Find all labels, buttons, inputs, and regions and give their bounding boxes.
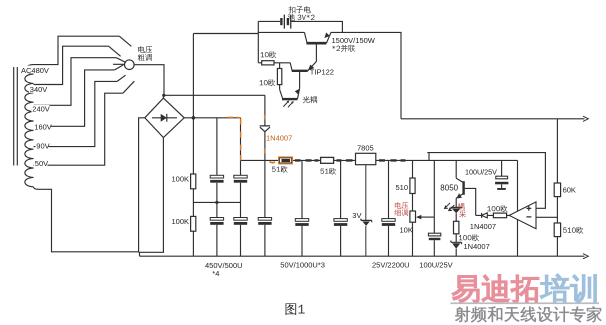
label 51ohm #2 bbox=[320, 168, 336, 175]
watermark logo bbox=[452, 274, 596, 303]
svg-text:1500V/150W: 1500V/150W bbox=[332, 36, 376, 45]
label 10ohm #1 bbox=[261, 51, 277, 58]
100K resistor column bbox=[192, 34, 194, 257]
svg-text:240V: 240V bbox=[32, 104, 50, 113]
tap wire AC480V bbox=[34, 36, 120, 64]
diode 1N4007 column bbox=[264, 95, 266, 256]
switch blade 240V bbox=[116, 58, 126, 63]
resistor R 100ohm (LED chain) bbox=[454, 221, 459, 234]
7805 ground leg with 3V zener bbox=[365, 165, 367, 257]
label 510ohm bbox=[563, 227, 583, 234]
60K / 510ohm divider column bbox=[556, 119, 558, 256]
orange dashes on cap column bbox=[240, 119, 242, 161]
capacitor column C 450V/500U #1 bbox=[216, 118, 218, 256]
svg-text:*4: *4 bbox=[212, 269, 219, 278]
label 100ohm op-amp bbox=[487, 205, 507, 212]
resistor R 10ohm horizontal bbox=[258, 34, 290, 63]
winding bottom tail wire bbox=[34, 187, 139, 252]
wire bridge bottom vertex down bbox=[139, 138, 164, 253]
pot wiper arrow bbox=[420, 216, 434, 218]
svg-text:100K: 100K bbox=[172, 175, 190, 184]
svg-text:1N4007: 1N4007 bbox=[266, 134, 292, 143]
8050 base wire bbox=[465, 188, 476, 215]
svg-text:160V: 160V bbox=[34, 123, 52, 132]
label button battery line1 bbox=[288, 6, 310, 13]
label 10ohm #2 bbox=[260, 79, 276, 86]
svg-text:1N4007: 1N4007 bbox=[470, 222, 496, 231]
label *2 parallel bbox=[332, 45, 355, 52]
svg-text:8050: 8050 bbox=[440, 183, 458, 192]
bottom rail bbox=[140, 252, 585, 256]
switch blade 160V bbox=[113, 64, 124, 70]
main +rail bbox=[241, 159, 518, 161]
op-amp - input wire bbox=[536, 216, 557, 218]
op-amp supply vertical bbox=[517, 160, 519, 256]
svg-text:50V/1000U*3: 50V/1000U*3 bbox=[280, 261, 325, 270]
label optocoupler bbox=[303, 96, 317, 103]
tap wire 50V bbox=[34, 93, 123, 165]
label fine adjust line2 (red) bbox=[394, 209, 408, 216]
watermark slogan bbox=[455, 306, 601, 322]
label white backgrounds bbox=[20, 66, 51, 168]
switch blade 50V bbox=[123, 81, 134, 93]
zener D 1N4007 (LED chain) bbox=[451, 241, 462, 245]
node dot bbox=[192, 116, 196, 120]
transistor Q1 1500V/150W bbox=[304, 32, 307, 42]
orange blob on rail bbox=[270, 162, 276, 163]
tap wire 340V bbox=[34, 46, 109, 84]
capacitor C 100U/25V (bottom) column bbox=[433, 160, 435, 256]
switch blade AC480V bbox=[119, 36, 131, 46]
rotary wiper circle (voltage coarse adjust) bbox=[125, 60, 135, 70]
transistor Q3 8050 bbox=[456, 160, 463, 182]
resistor R 100K lower bbox=[191, 216, 196, 231]
svg-text:10K: 10K bbox=[400, 226, 413, 235]
resistor 51ohm #1 (orange highlighted) bbox=[279, 158, 292, 164]
node wire battery to base rail bbox=[193, 21, 304, 33]
LED emission arrows bbox=[445, 203, 455, 211]
op-amp output: wire, diode 1N4007, resistor 100ohm bbox=[476, 214, 510, 216]
transistor Q2 TIP122 bbox=[290, 63, 292, 70]
svg-text:AC480V: AC480V bbox=[21, 66, 49, 75]
zener D 3V bbox=[361, 219, 372, 223]
orange dashes top bbox=[228, 116, 241, 119]
orange dashes on diode column bbox=[264, 115, 266, 154]
orange modification highlight bbox=[228, 115, 293, 164]
svg-text:100U/25V: 100U/25V bbox=[419, 261, 452, 270]
svg-text:450V/500U: 450V/500U bbox=[205, 261, 243, 270]
tap wire 90V bbox=[34, 81, 118, 146]
potentiometer R 10K bbox=[410, 211, 416, 222]
capacitor C 100U/25V (right) bbox=[501, 160, 503, 188]
outer loop wire to op-amp + input bbox=[427, 153, 545, 209]
label fine adjust line1 (red) bbox=[395, 202, 409, 209]
regulator U 7805 bbox=[356, 153, 376, 164]
resistor R 100K upper bbox=[191, 174, 196, 189]
svg-text:7805: 7805 bbox=[357, 144, 374, 153]
resistor R 10ohm vertical bbox=[279, 63, 281, 90]
svg-text:1N4007: 1N4007 bbox=[464, 242, 490, 251]
label 51ohm #1 bbox=[272, 166, 288, 173]
svg-text:60K: 60K bbox=[563, 186, 576, 195]
wire bridge left vertex down bbox=[139, 118, 145, 253]
label voltage coarse adjust line1 bbox=[138, 46, 152, 53]
svg-text:100U/25V: 100U/25V bbox=[465, 168, 497, 177]
capacitor C2 plates bbox=[234, 175, 247, 178]
svg-text:100K: 100K bbox=[172, 217, 190, 226]
bridge rectifier bbox=[145, 98, 184, 137]
resistor 51ohm #2 bbox=[321, 157, 334, 163]
capacitor C plates on 1N4007 column bbox=[258, 218, 271, 221]
bridge inner diode bbox=[152, 114, 177, 122]
bottom terminal arrow bbox=[583, 254, 588, 259]
switch blade 340V bbox=[109, 46, 121, 56]
rail texture dashes bbox=[295, 159, 406, 161]
tap wire 160V bbox=[34, 70, 115, 126]
diode 1N4007 symbol bbox=[260, 126, 270, 132]
transformer secondary winding bbox=[25, 65, 34, 187]
emitter wire to right bbox=[331, 32, 585, 118]
capacitor column C 50V/1000U #1 bbox=[301, 160, 303, 256]
svg-text:510: 510 bbox=[396, 183, 409, 192]
svg-text:TIP122: TIP122 bbox=[310, 68, 334, 77]
capacitor column C 25V/2200U bbox=[388, 160, 390, 256]
wiper output wire bbox=[134, 65, 265, 98]
svg-text:90V: 90V bbox=[36, 142, 49, 151]
battery wire top bbox=[258, 21, 342, 32]
switch blade 90V bbox=[117, 75, 126, 81]
transformer core bbox=[14, 67, 18, 166]
resistor R 60K bbox=[554, 183, 560, 197]
optocoupler LED bbox=[451, 206, 462, 208]
label button battery line2 bbox=[288, 14, 315, 21]
tap wire 240V bbox=[34, 58, 117, 106]
battery B 3V*2 cells bbox=[280, 18, 282, 25]
label opto LED red char2 bbox=[459, 210, 466, 217]
resistor 510 column bbox=[412, 160, 414, 256]
capacitor column C 50V/1000U #2 bbox=[340, 160, 342, 256]
svg-text:3V: 3V bbox=[352, 211, 361, 220]
svg-text:340V: 340V bbox=[30, 85, 48, 94]
watermark pink bbox=[452, 275, 538, 303]
photo arrows bbox=[283, 101, 292, 107]
top terminal arrow bbox=[583, 116, 588, 121]
resistor R 510ohm bbox=[554, 223, 560, 237]
label opto LED red char1 bbox=[458, 203, 465, 210]
orange outline on 51ohm resistor bbox=[279, 157, 293, 164]
wire bridge + output bbox=[184, 117, 240, 119]
optocoupler phototransistor bbox=[280, 89, 283, 98]
node dot wiper/bridge top bbox=[162, 94, 165, 97]
label voltage coarse adjust line2 bbox=[138, 54, 152, 61]
watermark blue bbox=[540, 274, 596, 303]
svg-text:25V/2200U: 25V/2200U bbox=[372, 261, 410, 270]
resistor R 510 bbox=[410, 178, 415, 194]
op-amp U1 bbox=[509, 202, 536, 229]
capacitor C1 plates bbox=[210, 175, 223, 178]
balance mid wire bbox=[193, 201, 240, 203]
label 100ohm LED chain bbox=[459, 234, 479, 241]
figure caption bbox=[285, 303, 304, 315]
capacitor column C 450V/500U #2 bbox=[240, 118, 242, 256]
svg-text:50V: 50V bbox=[35, 159, 48, 168]
